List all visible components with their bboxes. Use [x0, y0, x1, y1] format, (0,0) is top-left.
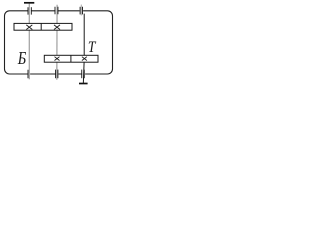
svg-text:Т: Т — [88, 39, 97, 56]
svg-text:Б: Б — [17, 48, 27, 69]
